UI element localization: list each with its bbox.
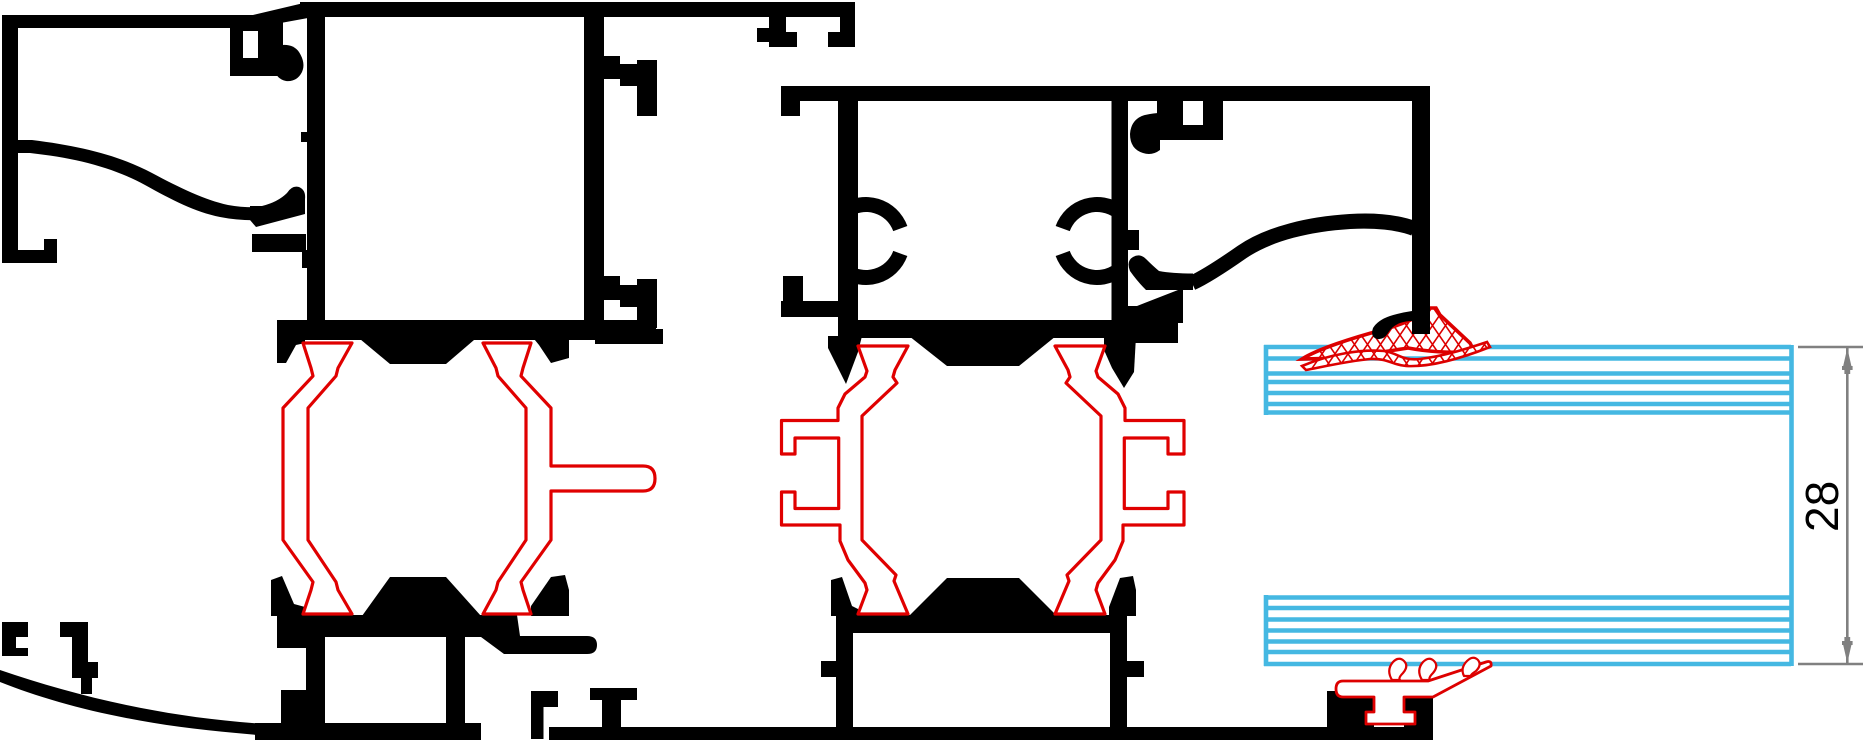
sash S1 top hook A (757, 16, 797, 47)
frame F1 curved rail (16, 140, 262, 220)
dim line (1846, 348, 1849, 663)
sash S2 screw ring right (1056, 197, 1141, 285)
sash S2 right wall (1112, 101, 1129, 346)
sash S2 top-left hook (781, 101, 800, 116)
sash S1 top dovetail right wing (530, 334, 569, 363)
sash S1 right wall (584, 13, 604, 335)
sash S2 wall nub (1128, 230, 1139, 250)
sash S2 screw ring left (822, 197, 907, 285)
frame F1 wall widen (302, 250, 325, 268)
sash S1 top bar (300, 2, 855, 17)
frame F2 interlock block (1157, 99, 1223, 140)
svg-text:28: 28 (1796, 481, 1848, 532)
frame F1 left wall (2, 15, 18, 263)
frame F1 rail band (252, 234, 306, 252)
sill far-left hook A (2, 622, 28, 656)
sash S1 top dovetail center (354, 334, 481, 364)
glass pane top lines (1264, 347, 1791, 413)
sash S2 rail left nub (821, 661, 836, 677)
sash S1 top hook B (828, 16, 855, 47)
sill clip A (531, 691, 558, 739)
frame F2 right wall (1412, 86, 1430, 334)
sash S1 bottom dovetail left wing (271, 576, 305, 616)
sash S2 rail right nub (1127, 661, 1144, 677)
frame F2 curved rail (1192, 221, 1414, 283)
ring mask patches (810, 190, 838, 294)
sash S2 bottom rail bar (836, 615, 1127, 633)
gasket G2 bottom (1336, 658, 1491, 724)
sill bottom line (549, 727, 1433, 740)
glass pane bottom lines (1264, 598, 1791, 665)
frame F2 interlock head (1130, 113, 1160, 154)
thermal strip S1-R (483, 343, 655, 614)
sash S1 bottom dovetail right wing (531, 575, 569, 616)
sash S2 bottom dovetail center (909, 578, 1057, 616)
glass pane top left edge (1264, 345, 1269, 415)
frame F1 rail claw head (250, 187, 305, 227)
sash S2 top dovetail center (909, 336, 1056, 366)
dim arrow bottom (1842, 637, 1853, 663)
frame F1 interlock block (230, 15, 283, 76)
sill clip B (590, 688, 637, 728)
sash S2 bottom-left arm (781, 276, 838, 317)
GLASS LAYER (1264, 345, 1792, 666)
frame F2 rail band (1128, 290, 1183, 323)
sill far-left hook B (60, 622, 98, 694)
sash S1 bottom rail left foot (281, 690, 306, 740)
gasket G2 body (1336, 662, 1491, 725)
sash S1 bottom step (595, 329, 663, 344)
sash S2 bottom rail left wall (836, 633, 853, 727)
sash S2 top bar with frame F2 (781, 86, 1430, 101)
sash S1 bottom rail bottom (255, 723, 481, 740)
BLACK LAYER (0, 2, 1433, 740)
sash S1 lower T-nub (604, 276, 657, 328)
frame F2 rail claw head (1129, 255, 1193, 290)
dim arrow top (1842, 348, 1853, 374)
thermal strip S1-L (283, 343, 352, 614)
sash S2 bottom dovetail left wing (831, 577, 858, 616)
frame F2 wall bottom claw (1372, 311, 1412, 339)
dim extension bottom (1798, 663, 1863, 666)
RED LAYER (283, 343, 1184, 614)
sash S1 top dovetail left wing (277, 334, 305, 363)
gasket G2 fingers (1389, 659, 1406, 680)
thermal strip S2-L (782, 346, 909, 614)
glass pane bottom left edge (1264, 595, 1269, 666)
sash S2 bottom step (1130, 320, 1178, 343)
DIMENSION LAYER (1798, 347, 1863, 664)
frame F1 interlock head (274, 45, 303, 81)
sash S1 left wall (307, 13, 325, 333)
gasket G2 right block (1404, 691, 1433, 740)
sash S1 bottom rail left wall (306, 632, 325, 732)
gasket G1 hatch (1278, 290, 1561, 380)
sash S2 bottom rail right wall (1110, 633, 1127, 727)
frame F1 interlock notch (243, 31, 258, 58)
sash S1 upper T-nub (604, 56, 657, 116)
gasket G1 top (glazing gasket, hatched) (1278, 290, 1561, 380)
dim extension top (1798, 346, 1863, 349)
sash S1 bottom rail right wall (446, 632, 465, 740)
sash S2 top dovetail left wing (828, 336, 862, 384)
sash S2 left wall (838, 101, 858, 330)
frame F1 top bar (2, 2, 308, 28)
sash S2 top dovetail right wing (1104, 336, 1136, 388)
sash S1 bottom bar (277, 320, 656, 340)
sash S1 left wall step (301, 132, 307, 142)
sash S2 bottom dovetail right wing (1109, 576, 1136, 616)
glass unit right edge (1789, 345, 1794, 666)
sill bottom curve (0, 670, 300, 739)
thermal strip S2-R (1055, 346, 1184, 614)
frame F1 foot (2, 239, 57, 263)
sash S1 bottom rail bar (277, 615, 597, 654)
gasket G2 left block (1327, 691, 1374, 740)
sash S1 bottom dovetail center (362, 577, 481, 616)
sash S2 bottom bar (838, 320, 1130, 338)
